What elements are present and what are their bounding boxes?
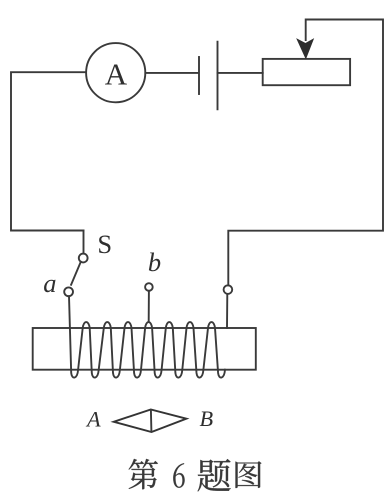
switch S blade (71, 262, 81, 285)
terminal a circle (64, 287, 73, 296)
caption char 6 (173, 463, 184, 487)
wire: terminal b stem (148, 291, 150, 321)
svg-text:b: b (148, 247, 161, 277)
solenoid coil winding (from terminal a wire) (69, 296, 225, 377)
caption char 第 (129, 459, 158, 489)
svg-text:B: B (199, 406, 213, 431)
caption char 题 (198, 459, 231, 492)
compass needle (diamond) (114, 410, 187, 433)
svg-text:A: A (105, 57, 128, 92)
wire: battery to rheostat (218, 72, 263, 74)
ammeter U1 circle (86, 43, 145, 102)
switch S stem (83, 231, 85, 254)
rheostat slider arrow (297, 39, 313, 58)
svg-text:A: A (85, 406, 101, 431)
solenoid core rectangle (33, 328, 256, 370)
battery positive plate (long) (217, 42, 219, 110)
terminal b circle (145, 283, 153, 291)
wire: slider stem to top (228, 20, 383, 286)
wire: right terminal stem to core (226, 294, 228, 328)
wire: left vertical branch (11, 72, 86, 230)
right terminal circle (224, 285, 233, 294)
rheostat R1 body (263, 59, 350, 85)
battery negative plate (short) (198, 57, 200, 94)
wire: ammeter to battery (145, 72, 197, 74)
caption char 图 (235, 461, 261, 488)
switch S pivot circle (79, 254, 88, 263)
compass needle pivot line (150, 410, 153, 432)
svg-text:S: S (97, 229, 112, 259)
svg-text:a: a (43, 268, 56, 298)
